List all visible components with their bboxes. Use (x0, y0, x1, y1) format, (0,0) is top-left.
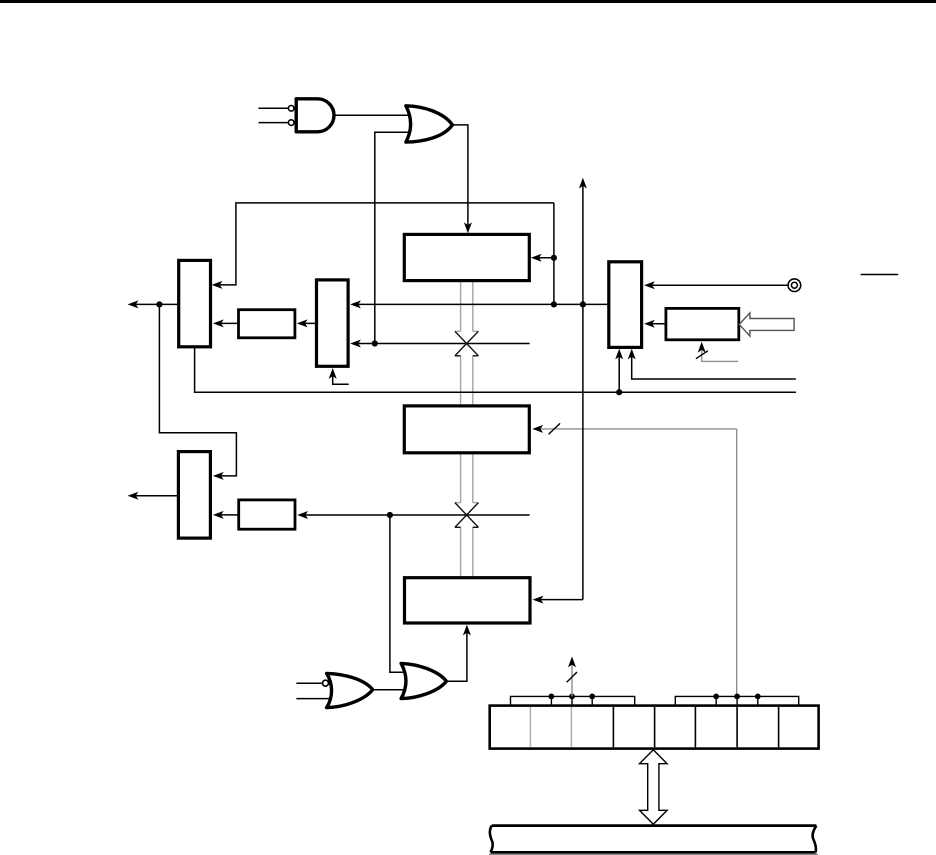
output controller block (lower left) (178, 452, 210, 538)
wire: up arrow into clock select bottom (from y=392 line) (618, 351, 620, 392)
overline mark (top right) (861, 274, 899, 276)
bus transfer X1 arrowhead diagonals (455, 331, 479, 356)
wire: L from y=379 line up into clock select bottom (632, 351, 796, 379)
page cut shadow below bus (489, 854, 818, 855)
wire: grey capture line from register file into TM0 right side (535, 428, 737, 430)
prescaler box (far right small box) (666, 308, 739, 339)
wire: G3 input 2 (296, 698, 331, 700)
or gate G2 (406, 106, 453, 142)
cell divider (694, 707, 696, 747)
wire: branch into CR00 right side (534, 257, 554, 259)
register file block (8 cells) (490, 706, 819, 749)
wire: TI00 pin line into clock select (647, 284, 788, 286)
wire: LV00 to output controller (216, 322, 239, 324)
wire: G3 output to G4 bottom input (373, 689, 405, 691)
node: bracket taps (549, 694, 555, 700)
wire: grey L stub with slash into prescaler bottom (702, 351, 739, 362)
wire: node TMC-OVF riser to G2 bottom input (375, 132, 410, 343)
wire: node x390 down to G4 top input (390, 515, 406, 672)
bus transfer X2 arrowhead diagonals (455, 503, 479, 528)
wire: G1 output to G2 top input (334, 114, 409, 116)
wire: TO00 output arrow (left) (130, 303, 179, 305)
node: junction x554 y304 (551, 301, 557, 307)
cell divider (654, 707, 656, 747)
cell divider (736, 707, 738, 747)
wire: prescaler to clock select (647, 323, 666, 325)
or gate G4 (401, 663, 446, 698)
register CR00 (top compare/capture register) (404, 234, 529, 280)
wire: up arrow with slash from left bracket (571, 663, 573, 696)
wire: vertical x=554 from y=203 to y=304 (553, 203, 555, 305)
left select bracket over register cells (511, 696, 635, 705)
wire: G4 output up into CR01 bottom (446, 627, 467, 681)
wire: interrupt riser x=583 with up arrow (582, 181, 584, 600)
right select bracket over register cells (675, 696, 798, 705)
cell divider (grey) (529, 707, 531, 747)
wire: match line y=304 into selector right side (353, 303, 609, 305)
node: junction x619 y392 (616, 389, 622, 395)
internal bus (bottom ribbon) (490, 826, 493, 853)
wire: jog from node x159 down to lower output controller (159, 304, 236, 476)
wire: G2 output down into register CR00 top (452, 125, 468, 231)
bus shafts segment: TM0 to X2 (455, 454, 479, 503)
node: junction x554 y258 (551, 255, 557, 261)
arrowhead + slash of capture line (532, 425, 543, 433)
wire: TO01 output arrow (left) (130, 495, 178, 497)
wire: G1 input 1 (259, 107, 289, 109)
clock select block (far right vertical box) (609, 262, 642, 348)
16-bit timer counter TM0 (middle box) (404, 406, 529, 453)
wire: match line y=343.5 into selector right side (353, 343, 530, 345)
pin TI00 (double circle) (788, 279, 801, 292)
buffer box LV00 (upper small box) (239, 310, 295, 338)
wire: match line y=515 into LV01 (300, 514, 530, 516)
wire: feedback line y=203 with jog down to output controller (215, 203, 554, 285)
selector block (mid vertical box) (317, 280, 349, 366)
open double arrow: register file to internal bus (640, 750, 668, 824)
output controller block (upper left) (179, 260, 211, 346)
node: bracket taps (713, 694, 719, 700)
node: junction x390 y515 (387, 512, 393, 518)
internal data bus shafts (grey) segment: CR00 to X1 (455, 282, 479, 332)
and gate G1 with inverted inputs (288, 99, 334, 132)
node: junction x159 y304 (156, 301, 162, 307)
wire: selector to LV00 (300, 322, 317, 324)
slash: bus width mark on capture line (549, 423, 561, 434)
cell divider (612, 707, 614, 747)
wire: G1 input 2 (259, 122, 289, 124)
node: junction x583 y304 (580, 301, 586, 307)
wire: branch left into CR01 right side (535, 599, 583, 601)
cell divider (778, 707, 780, 747)
wire: G3 input 1 (296, 682, 322, 684)
node: junction x375 y343.5 (372, 340, 378, 346)
wire: grey vertical down to register file bracket (736, 429, 738, 697)
bus shafts segment: X2 to CR01 (461, 527, 473, 577)
cell divider (grey) (570, 707, 572, 747)
bus shafts segment: X1 to TM0 counter (461, 356, 473, 405)
page top border bar (0, 0, 936, 3)
block arrow: internal clock input (739, 313, 794, 336)
wire: stub arrow into selector bottom (333, 371, 349, 384)
wire: clear line from output controller bottom along y=392 (195, 347, 796, 392)
nor gate G3 (inverted top input) (327, 673, 373, 707)
buffer box LV01 (lower small box) (239, 500, 295, 529)
register CR01 (lower compare/capture register) (405, 578, 531, 623)
wire: LV01 to lower output controller (216, 514, 239, 516)
